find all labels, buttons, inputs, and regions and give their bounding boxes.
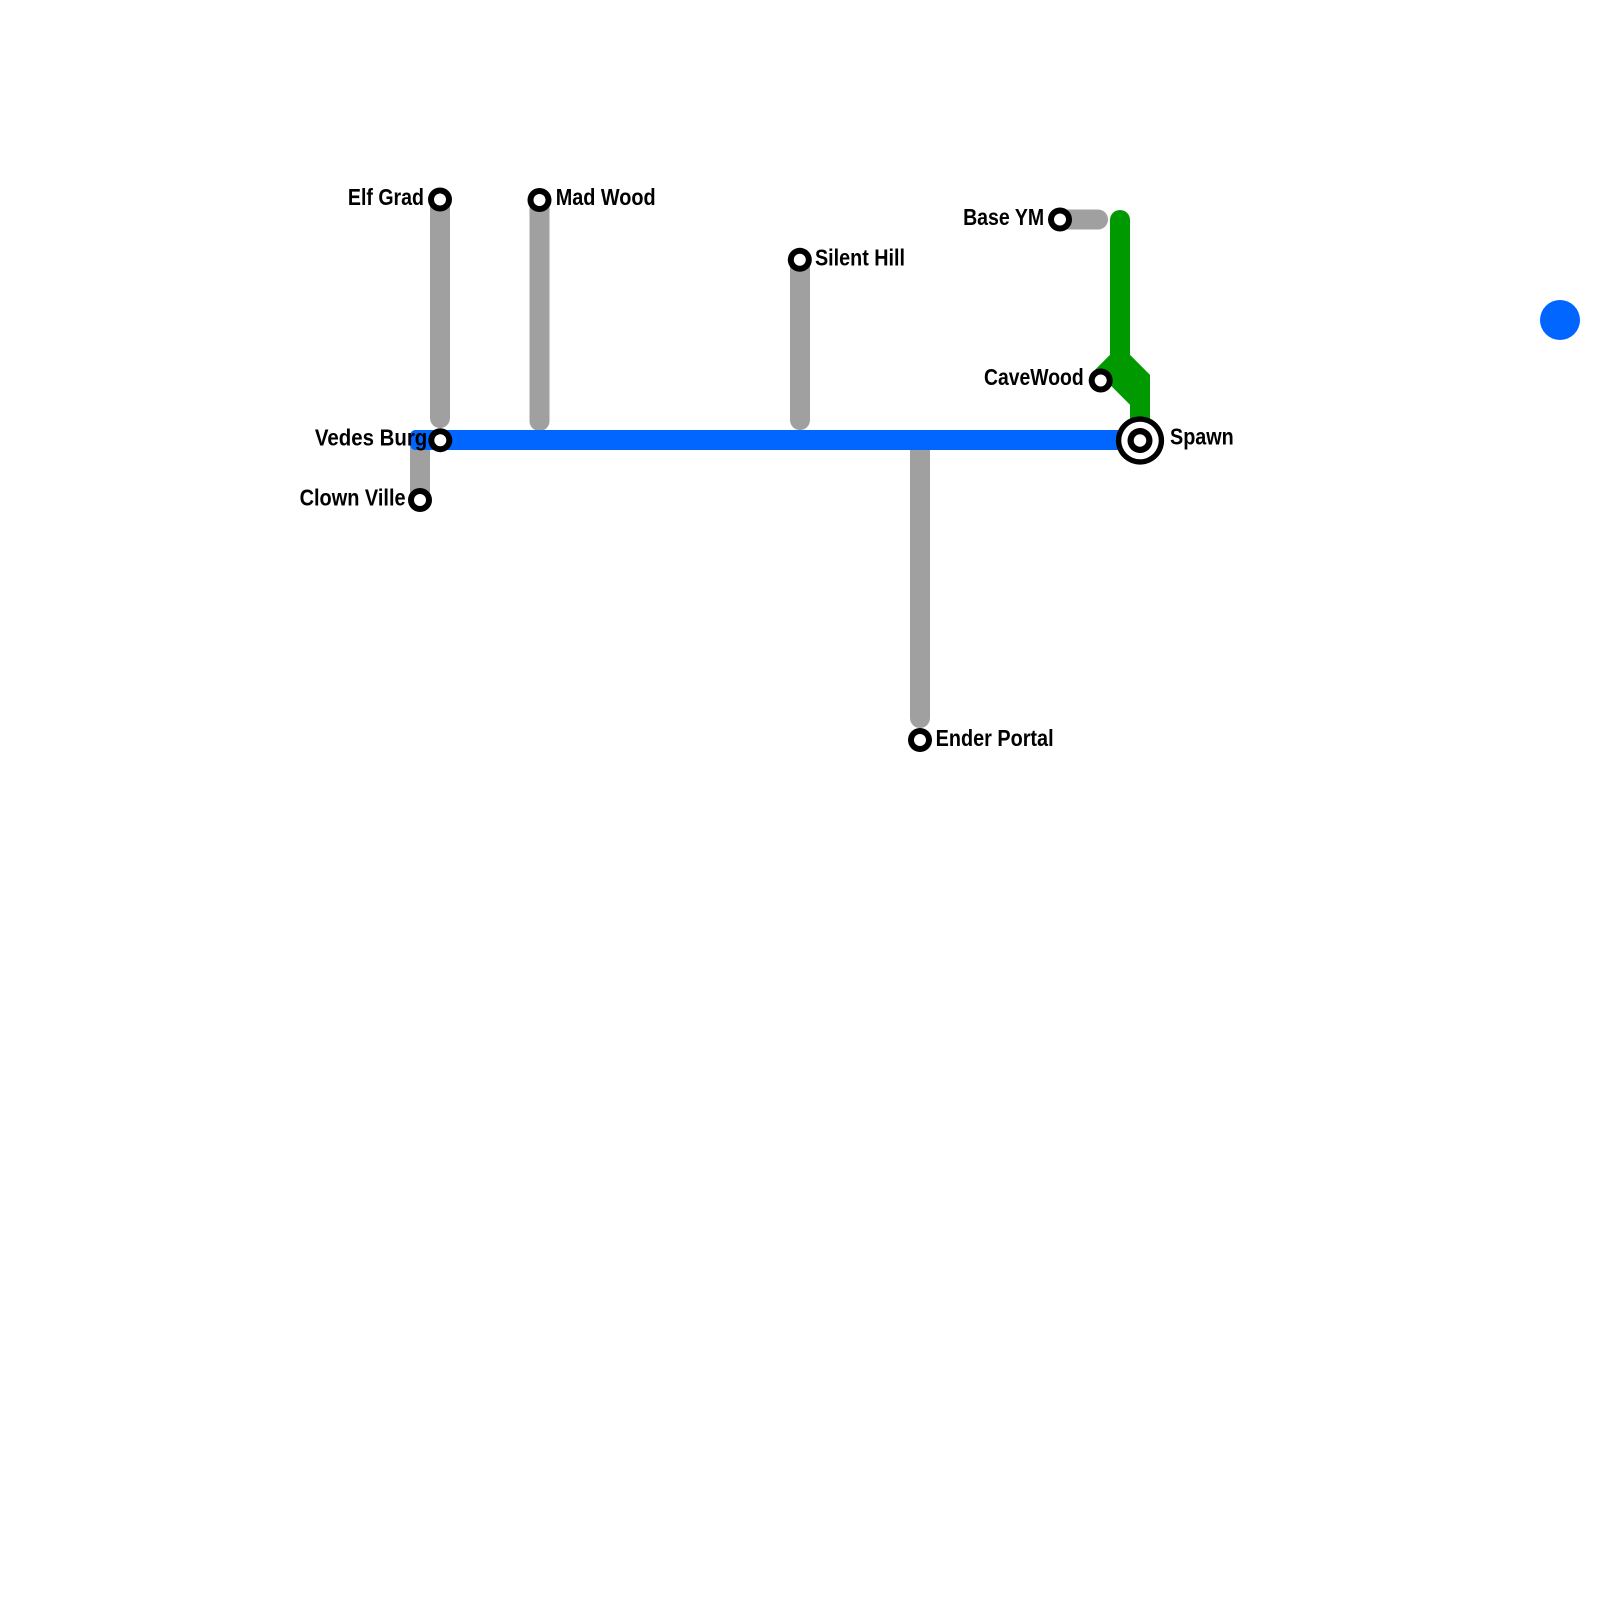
node Elf Grad [428, 188, 452, 212]
blue dot at right edge [1540, 300, 1580, 340]
wire gray line Base YM to green line [1060, 210, 1098, 230]
wire blue trunk line Vedes Burg to Spawn [411, 430, 1151, 450]
node Mad Wood [528, 188, 552, 212]
svg-text:CaveWood: CaveWood [984, 364, 1084, 390]
node CaveWood [1089, 369, 1113, 393]
svg-text:Clown Ville: Clown Ville [300, 485, 406, 511]
wire gray line Vedes Burg to Clown Ville [410, 440, 430, 499]
wire gray line Silent Hill to blue trunk [790, 260, 810, 420]
node Clown Ville [408, 488, 432, 512]
wire gray line Mad Wood to blue trunk [530, 200, 550, 421]
node Vedes Burg [428, 428, 452, 452]
node Ender Portal [908, 728, 932, 752]
svg-text:Spawn: Spawn [1170, 423, 1234, 449]
node Spawn (major station) [1116, 416, 1164, 464]
svg-text:Elf Grad: Elf Grad [348, 184, 424, 210]
svg-text:Vedes Burg: Vedes Burg [315, 424, 427, 450]
wire gray line blue trunk to Ender Portal [910, 440, 930, 718]
svg-text:Ender Portal: Ender Portal [936, 725, 1054, 751]
node Base YM [1048, 208, 1072, 232]
wire gray line Elf Grad to Vedes Burg [430, 200, 450, 418]
svg-text:Base YM: Base YM [963, 204, 1044, 230]
wire green line Base YM junction via CaveWood to Spawn [1095, 210, 1150, 433]
svg-text:Mad Wood: Mad Wood [556, 184, 656, 210]
svg-text:Silent Hill: Silent Hill [815, 244, 905, 270]
node Silent Hill [788, 248, 812, 272]
